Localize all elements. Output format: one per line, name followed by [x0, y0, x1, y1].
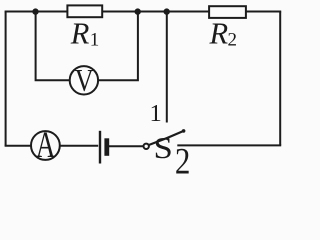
switch blade tip dot	[182, 129, 186, 133]
wire: outer top horizontal	[5, 11, 282, 13]
svg-text:2: 2	[228, 29, 238, 50]
wire: outer right vertical	[279, 12, 281, 146]
svg-text:2: 2	[175, 142, 191, 176]
node junction dot mid-right	[164, 8, 170, 14]
switch S pivot circle	[144, 144, 149, 149]
wire: ammeter to battery	[60, 145, 98, 147]
svg-text:A: A	[36, 124, 56, 165]
voltmeter V1 circle	[70, 66, 98, 94]
resistor R2	[209, 6, 246, 18]
svg-text:R: R	[70, 17, 90, 51]
wire: voltmeter branch right	[98, 12, 138, 81]
svg-text:S: S	[153, 131, 172, 165]
wire: voltmeter branch left	[36, 12, 70, 81]
svg-text:1: 1	[150, 100, 162, 127]
wire: battery to switch pivot	[109, 145, 144, 147]
ammeter A1 circle	[31, 131, 60, 160]
battery plate long	[99, 131, 101, 164]
resistor R1	[67, 5, 102, 17]
node junction dot left	[32, 8, 38, 14]
svg-text:R: R	[209, 17, 229, 51]
svg-text:V: V	[75, 64, 94, 99]
label R2	[209, 17, 238, 51]
svg-text:1: 1	[90, 29, 100, 50]
node junction dot mid-left	[135, 8, 141, 14]
battery plate short thick	[104, 138, 109, 156]
wire: switch contact 2 to right border	[177, 144, 281, 146]
wire: outer left vertical	[5, 12, 7, 146]
wire: middle vertical (contact 1 branch)	[166, 12, 168, 123]
label R1	[70, 17, 100, 51]
wire: bottom left segment	[5, 145, 32, 147]
switch S blade	[149, 131, 184, 145]
